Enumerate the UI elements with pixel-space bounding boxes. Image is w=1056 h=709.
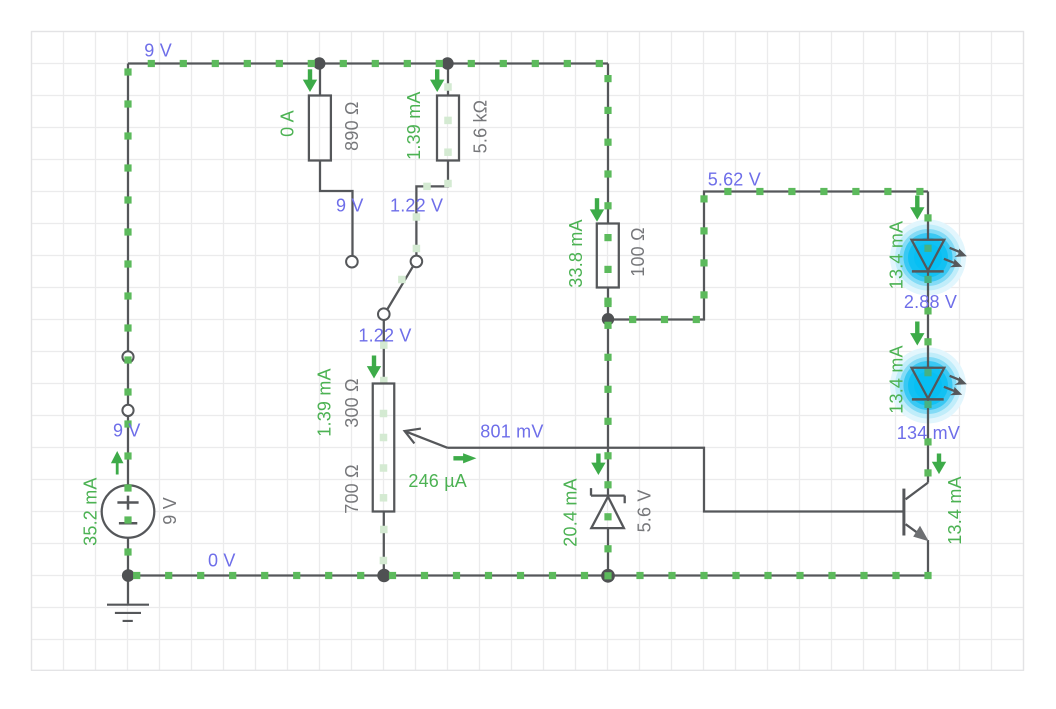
svg-text:5.6 V: 5.6 V <box>635 489 655 532</box>
svg-text:5.62 V: 5.62 V <box>708 170 761 190</box>
svg-text:1.39 mA: 1.39 mA <box>315 368 335 436</box>
svg-text:33.8 mA: 33.8 mA <box>566 219 586 287</box>
svg-text:9 V: 9 V <box>113 421 141 441</box>
svg-text:890 Ω: 890 Ω <box>342 101 362 151</box>
svg-text:9 V: 9 V <box>144 40 172 60</box>
svg-text:9 V: 9 V <box>336 195 364 215</box>
svg-text:300 Ω: 300 Ω <box>342 378 362 428</box>
svg-text:700 Ω: 700 Ω <box>342 464 362 514</box>
svg-text:100 Ω: 100 Ω <box>628 227 648 277</box>
svg-text:13.4 mA: 13.4 mA <box>886 345 906 413</box>
svg-text:246 µA: 246 µA <box>408 471 467 491</box>
svg-text:13.4 mA: 13.4 mA <box>886 221 906 289</box>
svg-text:0 V: 0 V <box>208 551 236 571</box>
svg-text:134 mV: 134 mV <box>897 423 960 443</box>
svg-text:35.2 mA: 35.2 mA <box>80 477 100 545</box>
svg-text:9 V: 9 V <box>160 497 180 525</box>
svg-text:0 A: 0 A <box>278 110 298 137</box>
svg-text:1.22 V: 1.22 V <box>358 326 411 346</box>
svg-text:2.88 V: 2.88 V <box>904 292 957 312</box>
svg-text:1.39 mA: 1.39 mA <box>404 91 424 159</box>
svg-text:13.4 mA: 13.4 mA <box>945 476 965 544</box>
svg-text:5.6 kΩ: 5.6 kΩ <box>470 100 490 154</box>
svg-text:1.22 V: 1.22 V <box>390 195 443 215</box>
svg-text:20.4 mA: 20.4 mA <box>561 478 581 546</box>
svg-text:801 mV: 801 mV <box>480 422 543 442</box>
